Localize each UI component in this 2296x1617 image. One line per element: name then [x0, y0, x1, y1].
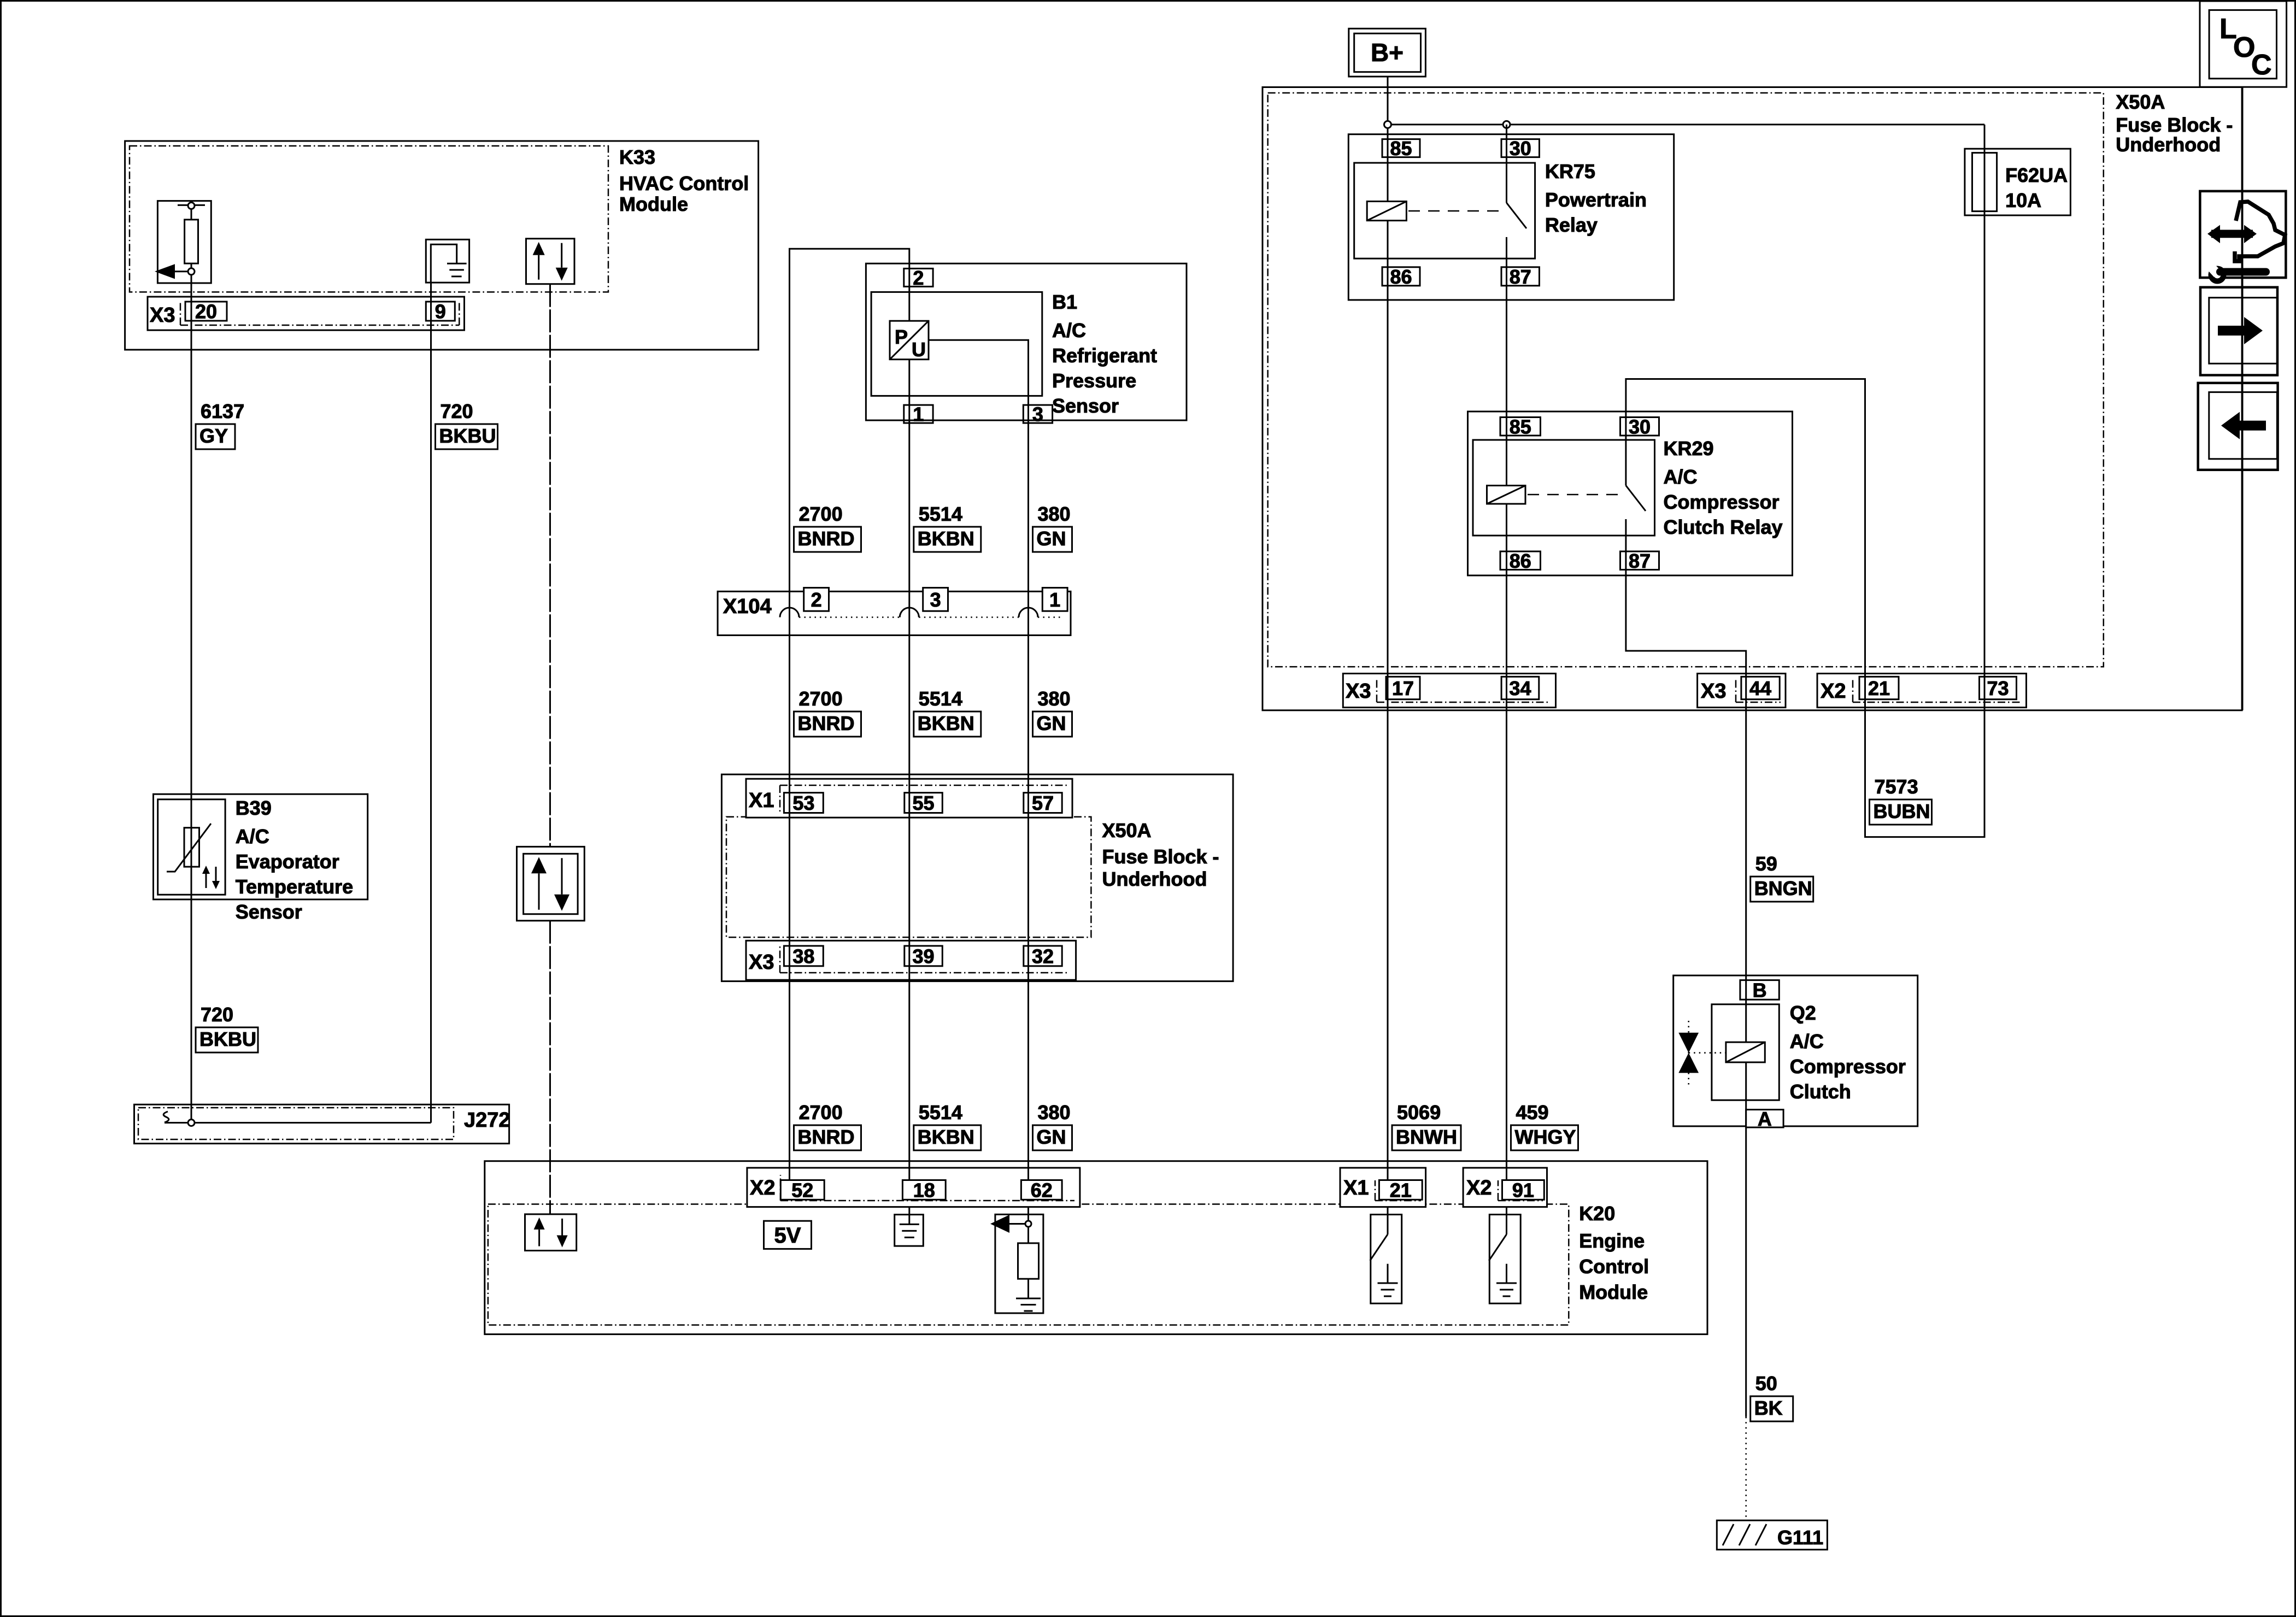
label 380 GN (row3): [1033, 687, 1072, 737]
svg-text:U: U: [912, 338, 926, 361]
svg-text:1: 1: [913, 403, 924, 426]
label 5514 BKBN (row4): [914, 1101, 981, 1150]
wire 59 BNGN / 50 BK: KR29-87 via X3-44 through Q2 to G111: [1626, 519, 1746, 1520]
svg-text:X1: X1: [1343, 1177, 1369, 1199]
K33 connector X3: [148, 297, 465, 330]
X2 pin 73: [1980, 677, 2017, 699]
svg-text:6137: 6137: [201, 400, 244, 422]
svg-text:380: 380: [1038, 1101, 1071, 1124]
svg-text:BKBN: BKBN: [918, 1126, 974, 1148]
svg-text:A/C: A/C: [1052, 319, 1086, 342]
KR29 coil: [1487, 486, 1526, 504]
svg-text:BKBU: BKBU: [199, 1028, 256, 1050]
svg-text:38: 38: [792, 945, 814, 967]
Q2 coil: [1726, 1042, 1765, 1062]
svg-text:Engine: Engine: [1579, 1230, 1645, 1252]
svg-text:X50A: X50A: [1102, 819, 1152, 842]
K20 pull-up sense (pin 62): arrow, resistor, ground: [990, 1207, 1043, 1313]
fuse block connector X3 (17,34): [1343, 674, 1555, 708]
KR29 pin 30: [1620, 415, 1659, 438]
X3 pin 38: [784, 945, 823, 967]
svg-text:GN: GN: [1037, 1126, 1066, 1148]
icon: arrow left: [2198, 383, 2278, 470]
svg-text:BUBN: BUBN: [1874, 800, 1930, 822]
label 6137 GY: [196, 400, 244, 449]
wire 380 GN: B1 pin 3 to X104-1, X1-57, X3-32, K20 X2-62: [929, 340, 1029, 1180]
svg-text:30: 30: [1629, 415, 1651, 438]
svg-text:1: 1: [1049, 589, 1060, 611]
svg-text:73: 73: [1987, 677, 2009, 699]
svg-text:BNRD: BNRD: [798, 712, 855, 734]
svg-text:Compressor: Compressor: [1790, 1055, 1906, 1078]
K20 connector X2 (91): [1463, 1168, 1547, 1207]
B1 pin 2: [904, 267, 933, 289]
svg-text:720: 720: [441, 400, 473, 422]
svg-text:85: 85: [1390, 137, 1412, 160]
svg-text:K33: K33: [619, 146, 655, 168]
svg-text:87: 87: [1510, 266, 1531, 288]
svg-text:X3: X3: [1346, 680, 1371, 703]
svg-text:17: 17: [1392, 677, 1414, 699]
B39 up/down arrows: [202, 866, 220, 889]
svg-text:Pressure: Pressure: [1052, 369, 1136, 392]
svg-text:J272: J272: [464, 1109, 510, 1132]
ground G111: [1717, 1520, 1827, 1550]
svg-text:Q2: Q2: [1790, 1002, 1816, 1024]
svg-text:2: 2: [913, 267, 924, 289]
svg-text:F62UA: F62UA: [2005, 164, 2068, 186]
Q2 pin A: [1746, 1108, 1783, 1130]
wire 7573 BUBN: F62UA fuse, X2-73, loop to X2-21, KR29-30: [1626, 125, 1984, 837]
svg-text:WHGY: WHGY: [1515, 1126, 1576, 1148]
KR75 coil link (dashed): [1408, 210, 1501, 212]
wire 2700 BNRD: B1 pin 2 loop to X104-2, X1-53, X3-38, K20 X2-52: [790, 249, 909, 1180]
svg-text:B39: B39: [236, 797, 272, 819]
X3 pin 44: [1741, 677, 1780, 699]
svg-text:380: 380: [1038, 687, 1071, 710]
svg-text:34: 34: [1509, 677, 1531, 699]
KR75 pin 87: [1501, 266, 1540, 288]
label 380 GN (row4): [1033, 1101, 1072, 1150]
svg-text:GN: GN: [1037, 527, 1066, 550]
svg-text:85: 85: [1510, 415, 1531, 438]
wire 5069 BNWH: B+ bus through KR75 coil, X3-17 to K20 X1-21: [1387, 125, 1389, 1180]
svg-text:91: 91: [1512, 1179, 1534, 1201]
svg-text:B1: B1: [1052, 291, 1077, 313]
svg-text:57: 57: [1032, 792, 1054, 814]
X1 pin 53: [784, 792, 823, 814]
KR29 pin 87: [1620, 550, 1659, 572]
X50A middle connector X3: [746, 940, 1076, 980]
svg-text:55: 55: [913, 792, 935, 814]
icon: component view (car door + wrench): [2200, 191, 2286, 284]
svg-text:9: 9: [435, 301, 446, 323]
svg-text:Fuse Block -: Fuse Block -: [2116, 114, 2233, 136]
fuse block X50A outer boundary (top right): [1262, 87, 2242, 710]
svg-text:GN: GN: [1037, 712, 1066, 734]
svg-text:GY: GY: [199, 425, 228, 447]
svg-text:BNWH: BNWH: [1396, 1126, 1457, 1148]
K20 pin X2-91: [1502, 1179, 1545, 1201]
label 50 BK: [1751, 1372, 1793, 1421]
X2 pin 21: [1859, 677, 1899, 699]
X104 pin 1: [1042, 588, 1067, 611]
svg-text:BKBN: BKBN: [918, 527, 974, 550]
KR75 coil: [1367, 202, 1406, 221]
Q2 pin B: [1740, 979, 1779, 1001]
svg-text:Underhood: Underhood: [1102, 868, 1207, 890]
label 380 GN (row2): [1033, 503, 1072, 552]
serial data communication symbol (mid, double box up/down arrows): [517, 846, 585, 920]
module K33 HVAC Control Module: [125, 141, 759, 350]
svg-text:HVAC Control: HVAC Control: [619, 172, 749, 195]
serial data wire (dashed) K33 to K20: [549, 284, 551, 1214]
fuse F62UA 10A: [1965, 149, 2071, 215]
wire 720 BKBU: K33 ground X3-9 to J272: [430, 283, 432, 1122]
label 2700 BNRD (row4): [794, 1101, 861, 1150]
fuse block connector X2 (21,73): [1817, 674, 2027, 708]
svg-text:BNGN: BNGN: [1754, 877, 1812, 899]
K20 pin X2-18: [902, 1179, 946, 1201]
K20 pin X2-52: [780, 1179, 824, 1201]
svg-text:B: B: [1753, 979, 1767, 1001]
svg-text:53: 53: [792, 792, 814, 814]
splice pack J272: [134, 1104, 510, 1143]
reference rail wire below LOC: [2242, 87, 2244, 710]
svg-text:62: 62: [1031, 1179, 1053, 1201]
B1 pin 1: [904, 403, 933, 426]
svg-text:X104: X104: [723, 595, 772, 618]
svg-text:X3: X3: [1701, 680, 1726, 703]
K33 pin 20: [185, 301, 227, 323]
svg-text:21: 21: [1390, 1179, 1412, 1201]
relay KR29 A/C Compressor Clutch Relay: [1468, 411, 1793, 575]
wire 5514 BKBN: B1 pin 1 to X104-3, X1-55, X3-39, K20 X2-18: [908, 268, 910, 1180]
svg-text:BNRD: BNRD: [798, 527, 855, 550]
K20 pin X1-21: [1379, 1179, 1422, 1201]
svg-text:A/C: A/C: [1790, 1030, 1824, 1052]
K20 connector X1 (21): [1340, 1168, 1426, 1207]
K20 5V reference: [764, 1221, 812, 1249]
K20 serial data symbol: [525, 1214, 577, 1251]
Q2 clutch valve symbol: [1678, 1021, 1726, 1085]
label 2700 BNRD (row2): [794, 503, 861, 552]
K33 pin 9: [426, 301, 455, 323]
svg-text:Compressor: Compressor: [1664, 491, 1780, 513]
svg-text:87: 87: [1629, 550, 1651, 572]
X3 pin 17: [1386, 677, 1420, 699]
svg-text:Underhood: Underhood: [2116, 133, 2221, 156]
svg-text:G111: G111: [1777, 1526, 1823, 1549]
K33 serial data symbol (up/down arrows): [526, 239, 575, 284]
svg-text:5514: 5514: [919, 1101, 962, 1124]
svg-text:10A: 10A: [2005, 189, 2041, 211]
svg-text:7573: 7573: [1875, 775, 1918, 798]
svg-text:5069: 5069: [1397, 1101, 1441, 1124]
KR29 switch blade: [1626, 486, 1646, 511]
X3 pin 34: [1501, 677, 1539, 699]
K33 internal ground: [426, 239, 469, 283]
svg-text:18: 18: [913, 1179, 935, 1201]
X3 pin 32: [1024, 945, 1062, 967]
label 720 BKBU (upper): [436, 400, 498, 449]
svg-text:X50A: X50A: [2116, 91, 2165, 113]
relay KR75 Powertrain Relay: [1348, 134, 1673, 300]
X104 pin 3: [923, 588, 948, 611]
LOC reference box: [2200, 1, 2287, 87]
label 59 BNGN: [1751, 852, 1813, 902]
svg-text:BKBN: BKBN: [918, 712, 974, 734]
K20 connector X2 (52,18,62): [747, 1168, 1080, 1207]
svg-text:86: 86: [1390, 266, 1412, 288]
X1 pin 55: [905, 792, 943, 814]
svg-text:X3: X3: [150, 304, 175, 327]
B1 pin 3: [1023, 403, 1052, 426]
label 5514 BKBN (row2): [914, 503, 981, 552]
KR75 pin 85: [1382, 137, 1420, 160]
svg-text:86: 86: [1510, 550, 1531, 572]
connector X104: [718, 591, 1071, 635]
svg-text:720: 720: [201, 1003, 233, 1026]
svg-text:Module: Module: [1579, 1281, 1648, 1303]
svg-text:X2: X2: [1821, 680, 1846, 703]
svg-text:X2: X2: [750, 1177, 775, 1199]
wire B+ feed and bus: [1388, 77, 1984, 125]
B39 thermistor: [167, 824, 211, 872]
svg-text:Clutch: Clutch: [1790, 1080, 1851, 1103]
svg-text:380: 380: [1038, 503, 1071, 525]
svg-text:59: 59: [1755, 852, 1777, 875]
svg-text:2700: 2700: [799, 687, 843, 710]
X3 pin 39: [905, 945, 943, 967]
battery feed B+: [1349, 28, 1426, 77]
svg-text:2700: 2700: [799, 503, 843, 525]
KR75 pin 86: [1382, 266, 1420, 288]
svg-text:3: 3: [1032, 403, 1043, 426]
X50A Fuse Block - Underhood (pass-through section): [721, 774, 1233, 981]
svg-text:5514: 5514: [919, 503, 962, 525]
svg-text:P: P: [895, 326, 908, 348]
svg-text:Sensor: Sensor: [236, 901, 302, 923]
svg-text:KR75: KR75: [1545, 160, 1595, 183]
icon: arrow right: [2200, 287, 2277, 375]
svg-text:Powertrain: Powertrain: [1545, 189, 1647, 211]
B1 P/U transducer: [890, 321, 929, 361]
svg-text:50: 50: [1755, 1372, 1777, 1395]
junction at KR75-30 tap: [1503, 121, 1510, 128]
svg-text:52: 52: [791, 1179, 813, 1201]
svg-text:BKBU: BKBU: [439, 425, 496, 447]
KR75 pin 30: [1501, 137, 1540, 160]
svg-text:A/C: A/C: [236, 825, 269, 848]
svg-text:Refrigerant: Refrigerant: [1052, 344, 1157, 367]
svg-text:21: 21: [1868, 677, 1890, 699]
K20 low-side driver (pin 91): [1489, 1207, 1520, 1304]
label 5514 BKBN (row3): [914, 687, 981, 737]
junction at B+ drop: [1384, 121, 1391, 128]
svg-text:2: 2: [811, 589, 822, 611]
sensor B39 A/C Evaporator Temperature Sensor: [154, 794, 368, 923]
label 459 WHGY: [1511, 1101, 1578, 1150]
svg-text:Module: Module: [619, 193, 688, 215]
X104 pin 2: [804, 588, 829, 611]
svg-text:B+: B+: [1371, 38, 1404, 67]
KR29 pin 85: [1500, 415, 1541, 438]
svg-text:Relay: Relay: [1545, 214, 1598, 236]
svg-text:KR29: KR29: [1664, 437, 1714, 460]
svg-text:Temperature: Temperature: [236, 875, 353, 898]
label 7573 BUBN: [1870, 775, 1932, 825]
KR29 coil link (dashed): [1528, 494, 1620, 496]
svg-text:BK: BK: [1754, 1397, 1783, 1419]
X104 terminal bumps: [780, 608, 1038, 618]
svg-text:2700: 2700: [799, 1101, 843, 1124]
svg-text:A/C: A/C: [1664, 466, 1698, 488]
svg-text:5V: 5V: [774, 1224, 801, 1248]
svg-text:30: 30: [1510, 137, 1531, 160]
svg-text:5514: 5514: [919, 687, 962, 710]
svg-text:20: 20: [195, 301, 217, 323]
svg-text:X1: X1: [749, 789, 774, 812]
wire 6137 GY / 720 BKBU: K33 X3-20 through B39 to J272: [191, 275, 192, 1123]
svg-text:459: 459: [1516, 1101, 1549, 1124]
svg-text:K20: K20: [1579, 1202, 1615, 1225]
K33 internal sensor feed (resistor with arrow): [155, 201, 211, 283]
svg-text:44: 44: [1749, 677, 1771, 699]
label 720 BKBU (lower): [196, 1003, 258, 1052]
X50A middle connector X1: [746, 779, 1072, 818]
sensor B1 A/C Refrigerant Pressure Sensor: [866, 263, 1187, 420]
actuator Q2 A/C Compressor Clutch: [1673, 975, 1918, 1126]
svg-text:X3: X3: [749, 951, 774, 974]
label 5069 BNWH: [1392, 1101, 1461, 1150]
svg-text:Clutch Relay: Clutch Relay: [1664, 516, 1783, 538]
svg-text:C: C: [2251, 49, 2272, 81]
svg-text:39: 39: [913, 945, 935, 967]
module K20 Engine Control Module: [485, 1161, 1707, 1334]
label 2700 BNRD (row3): [794, 687, 861, 737]
KR29 pin 86: [1500, 550, 1541, 572]
K20 internal ground (pin 18): [895, 1207, 924, 1246]
svg-text:32: 32: [1032, 945, 1054, 967]
svg-text:Fuse Block -: Fuse Block -: [1102, 845, 1219, 868]
svg-text:Sensor: Sensor: [1052, 395, 1119, 417]
J272 internal bus wire: [163, 1112, 431, 1126]
svg-text:3: 3: [930, 589, 941, 611]
X1 pin 57: [1024, 792, 1062, 814]
fuse block connector X3 (44): [1698, 674, 1786, 708]
svg-text:BNRD: BNRD: [798, 1126, 855, 1148]
svg-text:A: A: [1758, 1108, 1772, 1130]
svg-text:Evaporator: Evaporator: [236, 850, 339, 873]
svg-text:X2: X2: [1466, 1177, 1491, 1199]
svg-text:Control: Control: [1579, 1255, 1649, 1278]
K20 low-side driver (pin 21): [1370, 1207, 1402, 1304]
wire 459 WHGY: bus to KR75-30, switch, KR29 coil, X3-34, K20 X2-91: [1507, 125, 1527, 1180]
K20 pin X2-62: [1021, 1179, 1062, 1201]
